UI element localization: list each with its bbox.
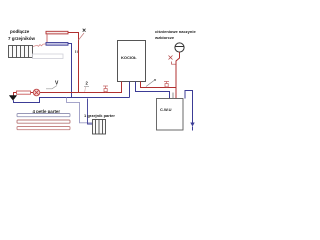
pump P1 (circle with X) — [33, 89, 40, 96]
pipe tag on riser — [76, 50, 78, 53]
red supply main — [14, 93, 123, 96]
wire: red drop between manifolds — [46, 35, 48, 43]
radiator 1 grzejnik parter — [93, 120, 106, 135]
tank C.W.U — [157, 99, 184, 131]
wire: radiator to manifold connector — [33, 44, 46, 47]
floor loop 2 — [17, 120, 70, 123]
wire: radiator feed blue — [88, 99, 93, 125]
tank stub — [172, 93, 174, 99]
pump P2 on DHW line — [164, 82, 169, 88]
svg-text:wzbiorcze: wzbiorcze — [154, 35, 175, 40]
blue return main — [14, 98, 130, 103]
svg-text:ciśnieniowe naczynie: ciśnieniowe naczynie — [155, 29, 196, 34]
wire: red riser from manifold — [68, 33, 79, 93]
bench shadow rectangle — [33, 54, 64, 59]
air vent symbol — [83, 29, 86, 32]
manifold supply (red) — [46, 31, 68, 34]
wire: blue riser from manifold — [68, 44, 72, 98]
manifold return (blue) — [46, 43, 68, 46]
svg-text:KOCIOŁ: KOCIOŁ — [121, 55, 137, 60]
svg-text:podłącze: podłącze — [10, 29, 30, 34]
filter (black triangle) — [9, 96, 16, 101]
inline component (slim red body) — [17, 91, 31, 94]
wire: vessel drop pipe — [176, 52, 180, 98]
wire: boiler DHW return line — [136, 82, 170, 99]
cold water line with check valve — [185, 91, 193, 123]
valve Z1 on supply main — [103, 86, 108, 93]
svg-text:1 grzejnik parter: 1 grzejnik parter — [84, 113, 115, 118]
svg-text:7 grzejników: 7 grzejników — [8, 36, 36, 41]
leader to DHW line — [146, 81, 154, 87]
expansion vessel — [175, 43, 184, 52]
boiler KOCIOŁ — [118, 41, 146, 82]
air vent leader — [79, 33, 85, 40]
wire: loop connector lavender — [67, 98, 93, 123]
radiator 7 grzejników — [9, 46, 33, 58]
wire: boiler CH return stub — [129, 82, 131, 98]
check valve — [190, 123, 194, 127]
wire: boiler CH supply stub — [121, 82, 123, 93]
safety valve mark — [169, 56, 177, 65]
floor loop 3 — [17, 127, 70, 130]
svg-text:C.W.U: C.W.U — [160, 107, 172, 112]
wire: boiler DHW supply line — [141, 82, 177, 88]
floor loop 1 — [17, 114, 70, 117]
